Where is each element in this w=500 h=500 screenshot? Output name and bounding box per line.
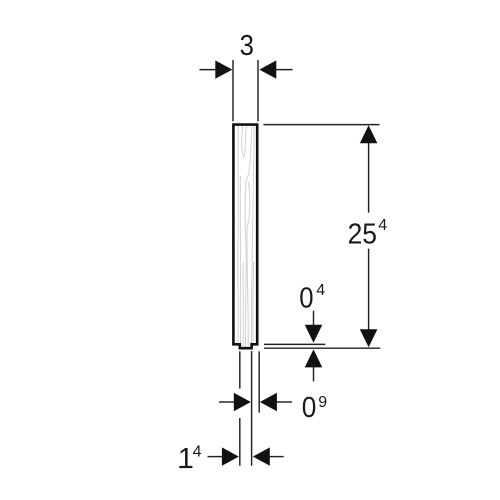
svg-text:3: 3 <box>240 30 254 62</box>
svg-text:9: 9 <box>318 394 327 411</box>
svg-text:1: 1 <box>178 443 194 475</box>
svg-text:4: 4 <box>378 217 387 234</box>
svg-text:4: 4 <box>193 443 202 460</box>
svg-text:25: 25 <box>348 219 377 251</box>
svg-text:0: 0 <box>299 283 313 315</box>
svg-text:4: 4 <box>316 282 325 299</box>
svg-text:0: 0 <box>302 392 317 424</box>
